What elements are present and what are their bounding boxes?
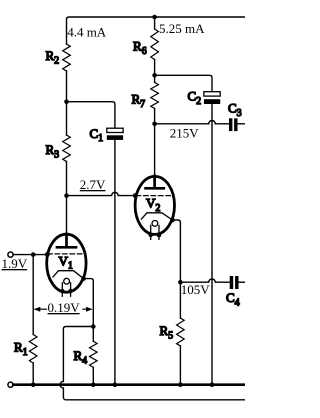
tube V1 cathode [53,271,84,279]
svg-text:C2: C2 [188,89,202,107]
wire: R5 bottom to ground rail [179,346,181,385]
node: R4 top / feedback junction [91,324,96,329]
wire: R6/R7 node to C2 top [155,75,212,91]
tube V1 grid (dashed) [48,253,85,255]
tube V2 cathode [141,213,172,220]
tube V1 envelope [47,234,86,292]
node: V2 cathode lead [170,218,175,223]
wire: top supply rail [67,17,246,44]
wire: R3 to V1 anode through node B [66,162,68,235]
wire: feedback from R4 node, hop over ground rail, off right edge [60,327,245,400]
wire: R7 bottom to V2 anode [154,109,156,177]
node: R1 at ground rail [31,382,36,387]
wire: node A to C1 top [67,102,115,129]
tube V2 anode [146,176,164,188]
tube V1 anode [57,234,76,247]
dimension arrow 0.19V [35,308,91,310]
svg-text:1.9V: 1.9V [2,256,28,271]
node: V2 grid lead [133,193,138,198]
svg-text:0.19V: 0.19V [48,300,81,315]
wire: R5 top lead [179,282,181,318]
resistor R3 [63,135,71,162]
wire: grid node down to R1 [32,255,34,335]
svg-text:R1: R1 [14,340,28,358]
resistor R7 [151,82,159,108]
capacitor C3 [229,118,238,131]
node: 215V junction [152,122,157,127]
svg-text:C4: C4 [226,290,240,308]
capacitor C4 [230,276,239,289]
wire: C2 bottom lead down to ground rail [211,104,213,385]
node: V1 cathode lead [81,276,86,281]
tube V2 heater [151,221,159,240]
node: R5 at ground rail [178,382,183,387]
svg-text:R2: R2 [46,48,60,66]
resistor R2 [63,44,71,71]
node: R1 top junction [31,252,36,257]
node: C1 lead at ground rail [113,382,118,387]
svg-text:R4: R4 [74,348,88,366]
wire: ground rail [13,383,245,386]
node: V2 heater pins [149,233,153,237]
resistor R6 [151,29,159,60]
terminal: ground at lower left [8,382,13,387]
node: 105V junction [178,280,183,285]
node: C2 lead at ground rail [210,382,215,387]
wire: R6 top lead [154,17,156,29]
capacitor C2 [204,92,220,104]
resistor R1 [29,335,37,364]
wire: R4 top lead [92,327,94,342]
wire: R4 bottom to ground rail [92,367,94,384]
resistor R5 [177,318,185,346]
svg-text:2.7V: 2.7V [80,177,106,192]
wire: V1 cathode to R4 top [84,279,94,327]
svg-text:R3: R3 [46,142,60,160]
wire: R1 bottom to ground rail [32,363,34,385]
node: top rail / R6 junction [152,15,157,20]
wire: V2 cathode to 105V node [172,220,180,282]
svg-text:C1: C1 [90,126,104,144]
tube V1 heater [62,278,70,296]
svg-text:105V: 105V [181,282,211,297]
node B: R3/V1-anode/V2-grid junction [64,193,69,198]
wire: input terminal to V1 grid [13,254,47,256]
svg-text:V2: V2 [146,196,160,214]
terminal: input at 1.9V [8,252,13,257]
svg-text:R7: R7 [132,92,146,110]
wire: C1 bottom lead down to ground rail [114,140,116,385]
node: V1 heater pins [60,289,64,293]
tube V2 envelope [135,176,174,234]
wire: R2 to R3 segment through node A [66,71,68,135]
wire: 105V node to C4 with hop over C2 lead [180,279,229,282]
wire: C3 to right edge [238,123,246,125]
svg-text:R6: R6 [133,39,147,57]
svg-text:215V: 215V [170,126,200,141]
capacitor C1 [107,128,123,140]
tube V2 grid (dashed) [136,195,173,197]
resistor R4 [90,341,98,367]
wire: 215V node to C3 with hop over C2 lead [155,121,229,124]
svg-text:C3: C3 [228,101,242,119]
node A: R2/R3/C1 junction [64,99,69,104]
wire: C4 to right edge [239,281,246,283]
svg-text:4.4 mA: 4.4 mA [67,24,107,39]
svg-text:R5: R5 [160,323,174,341]
wire: node B to V2 grid with hop over C1 lead [67,192,137,195]
node: R6/R7/C2 junction [152,73,157,78]
svg-text:5.25 mA: 5.25 mA [159,21,205,36]
node: R4 at ground rail [91,382,96,387]
svg-text:V1: V1 [59,254,73,272]
node: V1 grid lead [45,252,50,257]
wire: R6 to R7 segment [154,60,156,83]
